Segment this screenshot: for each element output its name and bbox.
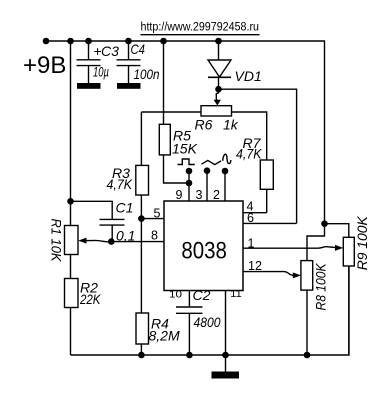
svg-text:8038: 8038 xyxy=(181,237,227,264)
ground bar under C4 xyxy=(117,83,141,89)
switch waveform symbol: square wave xyxy=(178,159,195,165)
svg-text:3: 3 xyxy=(196,188,203,202)
svg-text:VD1: VD1 xyxy=(235,68,262,84)
wire: junction to C1 top xyxy=(71,201,113,219)
pin label 3 xyxy=(196,188,203,202)
wire: left vertical rail xyxy=(70,41,72,201)
node: +9V terminal xyxy=(43,38,50,45)
R7 label xyxy=(236,135,262,162)
R3 label xyxy=(107,165,133,192)
wire: bottom ground rail xyxy=(71,266,350,355)
C4 value labels xyxy=(131,41,160,82)
resistor R3 xyxy=(136,112,149,219)
+9V supply label xyxy=(23,52,66,79)
switch waveform symbol: triangle wave xyxy=(202,160,222,164)
wire: junction to R8 top xyxy=(307,224,325,261)
switch waveform symbol: sine wave xyxy=(223,154,231,163)
pin label 4 xyxy=(247,200,254,214)
svg-text:+9В: +9В xyxy=(23,52,66,79)
wire: R5 bottom to switch common xyxy=(164,155,187,183)
C3 value labels xyxy=(93,43,119,80)
url underline xyxy=(141,34,260,36)
pin label 6 xyxy=(247,211,254,225)
capacitor C2 xyxy=(176,291,203,356)
diode VD1 xyxy=(208,41,231,89)
R1 label xyxy=(48,219,64,263)
op IC 8038 xyxy=(164,201,243,291)
capacitor C4 xyxy=(117,41,141,83)
node: left rail junction xyxy=(67,38,74,45)
wire: pin 4 to R7 bottom xyxy=(243,212,267,214)
svg-text:5: 5 xyxy=(154,207,161,221)
node: R4 on ground rail xyxy=(138,352,145,359)
R1 wiper arrowhead xyxy=(78,238,86,244)
switch common pole node xyxy=(186,180,193,187)
R8 label xyxy=(313,263,329,311)
svg-text:11: 11 xyxy=(230,289,242,300)
pin label 10 xyxy=(169,289,183,300)
site url text xyxy=(141,22,260,34)
node: pin8 / C1 bottom junction xyxy=(108,238,115,245)
wire: R3 top to R6 left xyxy=(141,111,201,113)
switch contact pin 3 xyxy=(204,167,211,174)
R9 label xyxy=(354,216,370,271)
potentiometer R9 xyxy=(343,237,354,355)
R6 label xyxy=(195,117,239,133)
resistor R5 xyxy=(159,124,170,155)
pin label 1 xyxy=(248,237,255,251)
svg-text:2: 2 xyxy=(213,188,220,202)
svg-text:10µ: 10µ xyxy=(93,64,109,80)
svg-text:R1 10K: R1 10K xyxy=(48,219,64,263)
wire: pin 3 xyxy=(206,171,208,201)
wire: pin 11 down xyxy=(225,291,227,356)
svg-text:100n: 100n xyxy=(134,66,160,82)
R6 wiper arrowhead xyxy=(214,100,221,106)
pin label 8 xyxy=(151,229,158,243)
wire: R5 branch from rail xyxy=(163,41,165,124)
node: VD1 anode junction xyxy=(215,38,222,45)
svg-text:R6: R6 xyxy=(195,117,213,133)
node: C3 junction xyxy=(85,38,92,45)
pin label 11 xyxy=(230,289,242,300)
C2 labels xyxy=(193,287,221,330)
svg-text:http://www.299792458.ru: http://www.299792458.ru xyxy=(141,22,260,34)
R2 label xyxy=(79,280,101,308)
svg-text:4800: 4800 xyxy=(194,314,221,330)
wire: R1 wiper xyxy=(86,240,111,242)
wire: pin 9 xyxy=(188,171,190,201)
ground symbol stem xyxy=(225,355,227,372)
pin label 9 xyxy=(176,188,183,202)
resistor R7 xyxy=(260,160,273,213)
wire: junction to R9 top xyxy=(325,224,349,238)
svg-text:8,2M: 8,2M xyxy=(149,328,180,344)
R6 wiper zigzag xyxy=(216,89,218,100)
C1 labels xyxy=(116,200,136,244)
node: pin 11 / ground junction xyxy=(222,352,229,359)
wire: pin 12 to R8 wiper xyxy=(243,272,293,276)
node: VD1 cathode junction xyxy=(215,86,222,93)
svg-text:15K: 15K xyxy=(172,141,198,157)
node: C2 on ground rail xyxy=(186,352,193,359)
wire: R6 right to R7 top xyxy=(232,112,267,160)
node: R8 on ground rail xyxy=(304,352,311,359)
svg-text:4,7K: 4,7K xyxy=(107,176,133,192)
wire: pin 2 xyxy=(224,171,226,201)
switch contact pin 9 xyxy=(186,168,193,175)
capacitor C1 xyxy=(100,219,125,241)
potentiometer R8 xyxy=(301,261,313,355)
wire: pin 1 to R9 wiper xyxy=(243,247,336,248)
svg-text:10: 10 xyxy=(169,289,183,300)
ground symbol bar xyxy=(212,372,240,379)
svg-text:22K: 22K xyxy=(79,291,101,307)
node: R1 top / C1 junction xyxy=(67,198,74,205)
svg-text:8: 8 xyxy=(151,229,158,243)
IC name 8038 xyxy=(181,237,227,264)
R9 wiper arrowhead xyxy=(335,245,343,251)
wire: VD1 node to pin 6 drop xyxy=(219,89,297,223)
svg-text:C2: C2 xyxy=(193,287,211,303)
svg-text:C4: C4 xyxy=(131,41,146,57)
svg-text:9: 9 xyxy=(176,188,183,202)
VD1 label xyxy=(235,68,262,84)
svg-text:1k: 1k xyxy=(223,117,239,133)
wire: pin 5 node down to R4 xyxy=(140,219,142,313)
wire: pin 6 xyxy=(243,222,297,224)
wire: +9V top rail xyxy=(46,41,325,224)
resistor R2 xyxy=(65,279,79,356)
switch contact pin 2 xyxy=(222,168,229,175)
R5 label xyxy=(172,128,198,157)
pin label 2 xyxy=(213,188,220,202)
svg-text:4,7K: 4,7K xyxy=(236,146,262,162)
node: R5 branch junction xyxy=(160,38,167,45)
svg-text:C3: C3 xyxy=(101,43,119,59)
wire: pin 8 xyxy=(111,241,164,243)
ground bar under C3 xyxy=(77,83,101,89)
svg-text:C1: C1 xyxy=(116,200,134,216)
node: pin 5 junction xyxy=(138,215,145,222)
node: C4 junction xyxy=(125,38,132,45)
svg-text:R8 100K: R8 100K xyxy=(313,263,329,311)
potentiometer R6 xyxy=(201,106,232,116)
node: +9V rail bottom junction xyxy=(321,220,328,227)
wire: pin 5 xyxy=(141,218,164,220)
R8 wiper arrowhead xyxy=(293,272,301,278)
R4 label xyxy=(149,316,180,344)
pin label 5 xyxy=(154,207,161,221)
resistor R4 xyxy=(136,313,149,355)
potentiometer R1 xyxy=(65,201,79,278)
capacitor C3 xyxy=(77,41,101,83)
svg-text:R9 100K: R9 100K xyxy=(354,216,370,271)
pin label 12 xyxy=(248,259,262,273)
